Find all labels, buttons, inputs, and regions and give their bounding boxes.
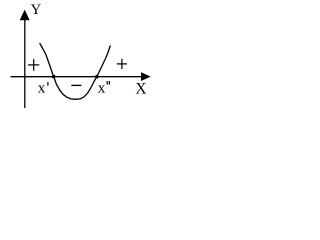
x-axis line <box>11 76 143 78</box>
svg-text:x: x <box>98 80 106 96</box>
root dot x'' <box>95 75 99 79</box>
x-axis arrowhead <box>141 72 151 81</box>
svg-text:X: X <box>135 80 146 97</box>
second prime tick of x'' <box>108 81 110 85</box>
parabola curve <box>40 44 110 100</box>
minus sign <box>71 84 81 86</box>
plus sign right <box>117 59 127 69</box>
prime tick of x' <box>47 82 49 86</box>
first prime tick of x'' <box>106 81 108 85</box>
y-axis line <box>24 13 26 108</box>
plus sign left <box>28 59 39 70</box>
svg-text:Y: Y <box>31 2 42 18</box>
root dot x' <box>52 75 56 79</box>
y-axis arrowhead <box>20 10 30 21</box>
svg-text:x: x <box>38 80 46 96</box>
